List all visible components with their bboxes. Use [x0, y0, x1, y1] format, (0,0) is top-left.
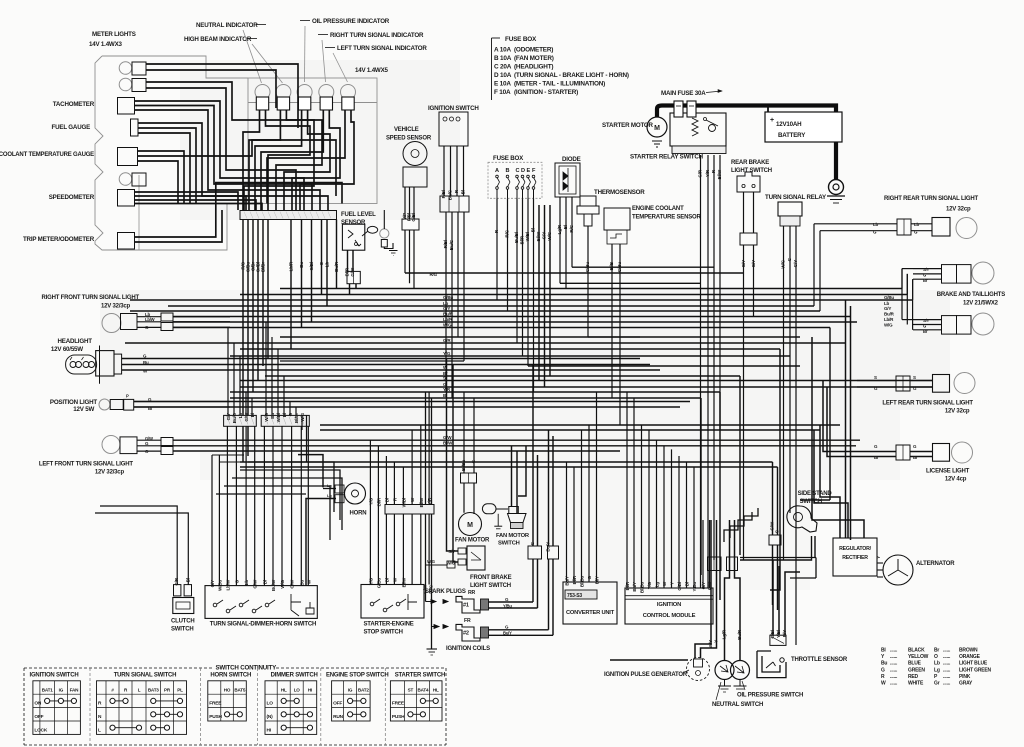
svg-text:Bl: Bl [563, 225, 568, 229]
svg-text:Bu: Bu [299, 262, 304, 268]
svg-text:Br: Br [923, 278, 928, 283]
svg-text:ENGINE COOLANT: ENGINE COOLANT [632, 206, 684, 212]
svg-text:STARTER SWITCH: STARTER SWITCH [395, 673, 445, 679]
svg-text:TEMPERATURE SENSOR: TEMPERATURE SENSOR [632, 215, 701, 221]
svg-text:FUSE BOX: FUSE BOX [493, 155, 524, 162]
svg-text:TACHOMETER: TACHOMETER [53, 101, 95, 108]
svg-text:Y/R: Y/R [427, 497, 432, 505]
svg-text:CONTROL MODULE: CONTROL MODULE [643, 613, 696, 619]
svg-text:G/Bl: G/Bl [411, 213, 416, 222]
svg-text:Bl: Bl [461, 190, 466, 194]
svg-text:BLUE: BLUE [908, 661, 922, 667]
svg-text:14V 1.4WX5: 14V 1.4WX5 [355, 67, 388, 74]
svg-text:RIGHT FRONT TURN SIGNAL LIGHT: RIGHT FRONT TURN SIGNAL LIGHT [42, 295, 140, 301]
svg-text:W/G: W/G [429, 584, 434, 593]
svg-text:W/Bl: W/Bl [525, 232, 530, 241]
svg-text:D: D [521, 168, 525, 174]
svg-text:Bl: Bl [282, 413, 287, 417]
svg-text:LOCK: LOCK [34, 727, 48, 733]
svg-text:Y/G: Y/G [368, 497, 373, 505]
svg-text:Bl/Bu: Bl/Bu [461, 460, 466, 471]
svg-text:Lg: Lg [934, 667, 940, 673]
svg-text:Bl: Bl [531, 228, 536, 232]
svg-text:HEADLIGHT: HEADLIGHT [58, 338, 93, 345]
svg-text:Bl/R: Bl/R [376, 497, 381, 506]
svg-text:HL: HL [433, 688, 439, 693]
svg-text:STOP SWITCH: STOP SWITCH [364, 630, 403, 636]
svg-text:POSITION LIGHT: POSITION LIGHT [50, 399, 97, 406]
svg-text:BAT2: BAT2 [358, 688, 369, 693]
svg-text:RIGHT TURN SIGNAL INDICATOR: RIGHT TURN SIGNAL INDICATOR [330, 32, 424, 39]
svg-text:G/Y: G/Y [751, 260, 756, 267]
svg-text:G/R: G/R [443, 338, 451, 343]
svg-text:Lb: Lb [238, 413, 243, 419]
svg-text:Bu/G: Bu/G [448, 189, 453, 200]
svg-text:F 10A: F 10A [494, 89, 511, 96]
svg-text:W/G: W/G [300, 412, 305, 421]
svg-text:GRAY: GRAY [959, 681, 973, 687]
svg-text:ST: ST [408, 688, 414, 693]
svg-text:M: M [467, 522, 473, 529]
svg-text:PINK: PINK [959, 674, 971, 680]
svg-text:IGNITION PULSE GENERATOR: IGNITION PULSE GENERATOR [604, 672, 688, 678]
svg-text:......: ...... [943, 648, 951, 654]
svg-text:#2: #2 [463, 631, 469, 637]
svg-text:LIGHT BLUE: LIGHT BLUE [959, 661, 988, 667]
svg-text:G/Y: G/Y [793, 260, 798, 267]
svg-text:PUSH: PUSH [209, 714, 222, 720]
svg-text:......: ...... [890, 648, 898, 654]
svg-text:L: L [98, 727, 101, 733]
svg-text:W/G: W/G [547, 231, 552, 240]
svg-text:G/W: G/W [244, 412, 249, 421]
svg-text:WHITE: WHITE [908, 681, 924, 687]
svg-text:G/Bu: G/Bu [617, 262, 622, 273]
svg-text:W: W [881, 681, 886, 687]
svg-text:FRONT BRAKE: FRONT BRAKE [470, 575, 512, 581]
svg-text:TURN SIGNAL RELAY: TURN SIGNAL RELAY [765, 194, 827, 201]
svg-text:Lb: Lb [873, 222, 879, 227]
svg-text:FUEL GAUGE: FUEL GAUGE [52, 124, 91, 131]
svg-text:G/Y: G/Y [210, 580, 215, 587]
svg-text:(HEADLIGHT): (HEADLIGHT) [514, 63, 553, 70]
svg-text:LO: LO [294, 688, 301, 693]
svg-text:LICENSE LIGHT: LICENSE LIGHT [926, 469, 970, 475]
svg-text:BAT4: BAT4 [417, 688, 428, 693]
svg-text:BATTERY: BATTERY [778, 132, 806, 139]
svg-text:Lg: Lg [654, 582, 659, 588]
svg-text:B 10A: B 10A [494, 55, 512, 62]
svg-text:Bl/R: Bl/R [520, 235, 525, 244]
svg-text:SWITCH: SWITCH [171, 627, 193, 633]
svg-text:Lb/W: Lb/W [225, 579, 230, 590]
svg-text:G: G [923, 273, 926, 278]
svg-text:W/G: W/G [264, 412, 269, 421]
svg-text:......: ...... [890, 661, 898, 667]
svg-text:FUEL LEVEL: FUEL LEVEL [341, 212, 376, 218]
svg-text:OIL PRESSURE SWITCH: OIL PRESSURE SWITCH [737, 693, 803, 699]
svg-text:A: A [495, 168, 499, 174]
svg-text:DIODE: DIODE [562, 156, 581, 163]
svg-text:G/W: G/W [253, 579, 258, 588]
svg-text:Lb: Lb [914, 222, 920, 227]
svg-text:Bu: Bu [270, 413, 275, 419]
svg-text:Br: Br [913, 455, 918, 460]
svg-text:W/G: W/G [443, 322, 452, 327]
svg-text:Bu/O: Bu/O [232, 412, 237, 423]
svg-text:G/W: G/W [423, 584, 428, 593]
svg-text:Lg/R: Lg/R [557, 224, 562, 234]
svg-text:(METER - TAIL - ILLUMINATION): (METER - TAIL - ILLUMINATION) [514, 80, 605, 87]
svg-text:Y/G: Y/G [368, 577, 373, 585]
svg-text:BAT5: BAT5 [234, 688, 245, 693]
svg-text:Bu/W: Bu/W [271, 579, 276, 591]
svg-text:Bl/Br: Bl/Br [261, 262, 266, 272]
svg-text:SWITCH: SWITCH [498, 541, 520, 547]
svg-text:......: ...... [943, 654, 951, 660]
svg-text:Y: Y [714, 640, 719, 643]
svg-text:Bl: Bl [384, 578, 389, 582]
svg-text:MAIN FUSE 30A: MAIN FUSE 30A [661, 90, 706, 97]
svg-text:R/Bl: R/Bl [443, 240, 448, 248]
svg-text:GREEN: GREEN [908, 667, 925, 673]
svg-text:14V 1.4WX3: 14V 1.4WX3 [89, 41, 122, 48]
svg-text:......: ...... [943, 681, 951, 687]
svg-text:FAN: FAN [70, 688, 79, 693]
svg-text:Y/R: Y/R [705, 169, 710, 177]
svg-text:12V 4cp: 12V 4cp [945, 477, 967, 483]
svg-text:LIGHT GREEN: LIGHT GREEN [959, 667, 992, 673]
svg-text:HL: HL [281, 688, 287, 693]
svg-text:CLUTCH: CLUTCH [171, 619, 194, 625]
svg-text:(FAN MOTER): (FAN MOTER) [514, 55, 554, 62]
svg-text:G/Y: G/Y [701, 582, 706, 589]
svg-text:S: S [874, 375, 877, 380]
svg-text:W/Y: W/Y [708, 640, 713, 648]
svg-text:Y/G: Y/G [443, 351, 451, 356]
svg-text:R/G: R/G [505, 229, 510, 237]
svg-text:Bl/R: Bl/R [625, 581, 630, 590]
svg-text:(ODOMETER): (ODOMETER) [514, 47, 553, 54]
svg-text:E 10A: E 10A [494, 80, 511, 87]
svg-text:Bu/Y: Bu/Y [503, 631, 512, 636]
svg-text:G/Y: G/Y [443, 306, 450, 311]
svg-text:LO: LO [267, 701, 274, 707]
svg-text:G/Bl: G/Bl [309, 262, 314, 271]
svg-text:Br: Br [874, 455, 879, 460]
svg-text:L: L [138, 688, 141, 693]
svg-text:Lb/R: Lb/R [884, 317, 894, 322]
svg-text:RECTIFIER: RECTIFIER [842, 555, 868, 561]
svg-text:PUSH: PUSH [392, 714, 405, 720]
svg-text:Br: Br [923, 329, 928, 334]
svg-text:Bl/Br: Bl/Br [294, 413, 299, 423]
svg-text:Bl/R: Bl/R [572, 575, 577, 584]
svg-text:Bu/R: Bu/R [884, 311, 895, 316]
svg-text:YELLOW: YELLOW [908, 654, 929, 660]
svg-text:Bl: Bl [185, 578, 190, 582]
svg-text:CONVERTER UNIT: CONVERTER UNIT [566, 610, 615, 616]
svg-text:Lb/R: Lb/R [289, 261, 294, 271]
svg-text:(TURN SIGNAL - BRAKE LIGHT - H: (TURN SIGNAL - BRAKE LIGHT - HORN) [514, 72, 629, 79]
svg-text:+: + [770, 117, 774, 124]
svg-text:Bl/Y: Bl/Y [594, 576, 599, 584]
svg-text:ON: ON [34, 701, 42, 707]
svg-text:LEFT TURN SIGNAL INDICATOR: LEFT TURN SIGNAL INDICATOR [337, 45, 427, 52]
svg-text:HI: HI [308, 688, 312, 693]
svg-text:Lb: Lb [325, 262, 330, 268]
svg-text:12V 32/3cp: 12V 32/3cp [95, 470, 125, 476]
svg-text:STARTER MOTOR: STARTER MOTOR [602, 122, 654, 129]
svg-text:Bl/B: Bl/B [609, 261, 614, 270]
svg-text:12V 21/5WX2: 12V 21/5WX2 [963, 301, 999, 307]
svg-text:STARTER-ENGINE: STARTER-ENGINE [364, 622, 414, 628]
svg-text:12V 60/55W: 12V 60/55W [51, 346, 83, 353]
svg-text:G/R: G/R [698, 169, 703, 177]
svg-text:Bl/W: Bl/W [401, 577, 406, 587]
svg-text:Bl: Bl [262, 580, 267, 584]
svg-text:12V 5W: 12V 5W [73, 406, 94, 413]
svg-text:Bl: Bl [148, 406, 152, 411]
svg-text:THERMOSENSOR: THERMOSENSOR [594, 189, 645, 196]
svg-text:A 10A: A 10A [494, 47, 511, 54]
svg-text:12V 32cp: 12V 32cp [946, 207, 971, 213]
svg-text:TRIP METER/ODOMETER: TRIP METER/ODOMETER [23, 236, 95, 243]
svg-text:PR: PR [164, 688, 171, 693]
svg-text:B: B [506, 168, 510, 174]
svg-text:W/G: W/G [884, 322, 893, 327]
svg-text:FREE: FREE [392, 701, 405, 707]
svg-text:Y/Bu: Y/Bu [692, 582, 697, 592]
svg-text:G/Bl: G/Bl [677, 582, 682, 591]
svg-text:Lb: Lb [244, 580, 249, 586]
svg-text:Lg: Lg [327, 493, 332, 498]
svg-text:COOLANT TEMPERATURE GAUGE: COOLANT TEMPERATURE GAUGE [0, 152, 94, 158]
svg-text:FAN MOTOR: FAN MOTOR [496, 533, 530, 539]
svg-text:E: E [527, 168, 531, 174]
svg-text:HORN: HORN [350, 511, 367, 517]
svg-text:Bl: Bl [250, 413, 255, 417]
svg-text:G/Bu: G/Bu [376, 578, 381, 589]
svg-text:REAR BRAKE: REAR BRAKE [731, 160, 769, 166]
svg-text:G: G [881, 667, 885, 673]
svg-text:DIMMER SWITCH: DIMMER SWITCH [271, 673, 318, 679]
svg-text:OIL PRESSURE INDICATOR: OIL PRESSURE INDICATOR [312, 18, 390, 25]
svg-text:Lb/W: Lb/W [145, 317, 155, 322]
svg-text:W/G: W/G [427, 559, 435, 564]
svg-text:Y/G: Y/G [647, 581, 652, 589]
svg-text:SPEEDOMETER: SPEEDOMETER [49, 194, 95, 201]
svg-text:REGULATOR/: REGULATOR/ [839, 546, 872, 552]
svg-text:G/Bl: G/Bl [770, 630, 775, 639]
svg-text:......: ...... [890, 654, 898, 660]
svg-text:THROTTLE SENSOR: THROTTLE SENSOR [791, 657, 848, 663]
svg-text:753-S3: 753-S3 [567, 593, 582, 599]
svg-text:NEUTRAL SWITCH: NEUTRAL SWITCH [712, 702, 763, 708]
svg-text:(N): (N) [267, 714, 274, 720]
svg-text:Bl/Bu: Bl/Bu [639, 582, 644, 593]
svg-text:C: C [516, 168, 520, 174]
svg-text:IGNITION SWITCH: IGNITION SWITCH [428, 105, 479, 112]
svg-text:Lb: Lb [934, 661, 940, 667]
svg-text:RUN: RUN [333, 714, 344, 720]
svg-text:Bu: Bu [299, 580, 304, 586]
svg-text:IGNITION COILS: IGNITION COILS [446, 646, 490, 652]
svg-text:Lg/R: Lg/R [722, 629, 727, 639]
svg-text:12V10AH: 12V10AH [776, 121, 802, 128]
svg-text:G/Y: G/Y [226, 413, 231, 420]
svg-text:ENGINE STOP SWITCH: ENGINE STOP SWITCH [326, 673, 389, 679]
svg-text:......: ...... [890, 674, 898, 680]
svg-text:HO: HO [224, 688, 231, 693]
svg-text:ORANGE: ORANGE [959, 654, 981, 660]
svg-text:D 10A: D 10A [494, 72, 512, 79]
svg-text:G/W: G/W [443, 435, 452, 440]
svg-text:BROWN: BROWN [959, 648, 978, 654]
svg-text:......: ...... [943, 674, 951, 680]
svg-text:G/Y: G/Y [884, 306, 891, 311]
svg-text:Bl/W: Bl/W [717, 169, 722, 179]
svg-text:Gr: Gr [934, 681, 940, 687]
svg-text:R/Y: R/Y [782, 630, 787, 637]
svg-text:PL: PL [177, 688, 183, 693]
svg-text:Bu/G: Bu/G [449, 239, 454, 250]
svg-text:TURN SIGNAL-DIMMER-HORN SWITCH: TURN SIGNAL-DIMMER-HORN SWITCH [210, 622, 316, 628]
svg-text:RIGHT REAR TURN SIGNAL LIGHT: RIGHT REAR TURN SIGNAL LIGHT [884, 196, 978, 202]
svg-text:Bl: Bl [684, 582, 689, 586]
svg-text:S: S [913, 375, 916, 380]
svg-text:W/G: W/G [280, 579, 285, 588]
svg-text:M: M [654, 125, 660, 132]
svg-text:SWITCH: SWITCH [800, 499, 822, 505]
svg-text:Bl: Bl [881, 648, 886, 654]
svg-text:BLACK: BLACK [908, 648, 925, 654]
svg-text:G/Bu: G/Bu [585, 262, 590, 273]
svg-text:IG: IG [348, 688, 353, 693]
svg-text:LEFT REAR TURN SIGNAL LIGHT: LEFT REAR TURN SIGNAL LIGHT [882, 401, 973, 407]
svg-text:SWITCH CONTINUITY: SWITCH CONTINUITY [216, 665, 278, 672]
svg-text:......: ...... [943, 667, 951, 673]
svg-text:STARTER RELAY SWITCH: STARTER RELAY SWITCH [630, 154, 704, 161]
svg-text:HIGH BEAM INDICATOR: HIGH BEAM INDICATOR [184, 36, 252, 43]
svg-text:LIGHT SWITCH: LIGHT SWITCH [731, 168, 772, 174]
svg-text:Bu/R: Bu/R [334, 261, 339, 272]
svg-text:BAT1: BAT1 [42, 688, 53, 693]
svg-text:Bl/W: Bl/W [419, 497, 424, 507]
svg-text:SIDE STAND: SIDE STAND [798, 491, 833, 497]
svg-text:NEUTRAL INDICATOR: NEUTRAL INDICATOR [196, 22, 258, 29]
svg-text:R: R [881, 674, 885, 680]
svg-text:#1: #1 [463, 603, 469, 609]
svg-text:BRAKE AND TAILLIGHTS: BRAKE AND TAILLIGHTS [937, 292, 1006, 298]
svg-text:TURN SIGNAL SWITCH: TURN SIGNAL SWITCH [114, 673, 177, 679]
svg-text:Br: Br [934, 648, 939, 654]
svg-text:S/Y: S/Y [923, 318, 930, 323]
svg-text:Bl/W: Bl/W [443, 441, 453, 446]
svg-text:FUSE BOX: FUSE BOX [505, 36, 537, 43]
svg-text:12V 32cp: 12V 32cp [945, 409, 970, 415]
svg-text:FAN MOTOR: FAN MOTOR [455, 538, 490, 544]
svg-text:Bu/Y: Bu/Y [546, 542, 551, 552]
svg-text:(IGNITION - STARTER): (IGNITION - STARTER) [514, 89, 578, 96]
svg-text:R/Bl: R/Bl [441, 190, 446, 198]
svg-text:LIGHT SWITCH: LIGHT SWITCH [470, 583, 511, 589]
svg-text:Bu: Bu [881, 661, 887, 667]
svg-text:S/Y: S/Y [923, 267, 930, 272]
svg-text:G/W: G/W [770, 521, 775, 530]
svg-text:Lg: Lg [327, 483, 332, 488]
svg-text:R/G: R/G [569, 224, 574, 232]
svg-text:Y: Y [669, 582, 674, 585]
svg-text:P: P [126, 394, 129, 399]
svg-text:RR: RR [468, 590, 476, 596]
svg-text:Bu/R: Bu/R [737, 629, 742, 640]
svg-text:Bu/Bl: Bu/Bl [514, 232, 519, 243]
svg-text:Bu/Y: Bu/Y [564, 576, 569, 586]
svg-text:W/Bl: W/Bl [401, 498, 406, 507]
svg-text:IGNITION SWITCH: IGNITION SWITCH [30, 673, 79, 679]
svg-text:C 20A: C 20A [494, 63, 512, 70]
svg-text:O: O [934, 654, 938, 660]
svg-text:Bl: Bl [384, 498, 389, 502]
svg-text:Y: Y [876, 556, 881, 559]
svg-text:Y/Bl: Y/Bl [776, 630, 781, 638]
svg-text:LEFT FRONT TURN SIGNAL LIGHT: LEFT FRONT TURN SIGNAL LIGHT [39, 462, 133, 468]
svg-text:OFF: OFF [333, 701, 342, 707]
svg-text:Bl/W: Bl/W [536, 231, 541, 241]
svg-text:Bu: Bu [143, 360, 149, 365]
svg-text:O/W: O/W [290, 579, 295, 588]
svg-text:12V 32/3cp: 12V 32/3cp [101, 304, 131, 310]
svg-text:W/G: W/G [781, 259, 786, 268]
svg-text:RED: RED [908, 674, 919, 680]
svg-text:G/R: G/R [174, 577, 179, 585]
svg-text:IGNITION: IGNITION [657, 602, 681, 608]
svg-text:IG: IG [59, 688, 64, 693]
svg-text:ALTERNATOR: ALTERNATOR [916, 561, 955, 567]
svg-text:Bu/Y: Bu/Y [632, 582, 637, 592]
svg-text:......: ...... [890, 667, 898, 673]
svg-text:G/Y: G/Y [542, 232, 547, 239]
svg-text:SPEED SENSOR: SPEED SENSOR [386, 136, 432, 142]
svg-text:Bl/Bu: Bl/Bu [579, 576, 584, 587]
svg-text:W/Bl: W/Bl [276, 413, 281, 422]
svg-text:G/Y: G/Y [741, 260, 746, 267]
svg-text:VEHICLE: VEHICLE [394, 127, 419, 133]
svg-text:BAT3: BAT3 [148, 688, 159, 693]
svg-text:OFF: OFF [34, 714, 43, 720]
svg-text:......: ...... [943, 661, 951, 667]
svg-text:FR: FR [464, 618, 471, 624]
svg-text:METER LIGHTS: METER LIGHTS [92, 31, 136, 38]
svg-text:......: ...... [890, 681, 898, 687]
svg-text:G/Bu: G/Bu [884, 295, 894, 300]
svg-text:G: G [923, 324, 926, 329]
svg-text:HORN SWITCH: HORN SWITCH [210, 673, 251, 679]
svg-text:FREE: FREE [209, 701, 222, 707]
svg-text:SENSOR: SENSOR [341, 220, 366, 226]
